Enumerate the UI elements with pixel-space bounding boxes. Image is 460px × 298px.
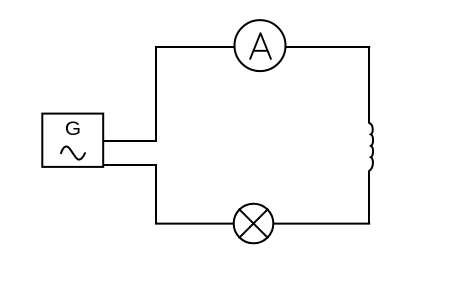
inductor L1 coil xyxy=(369,123,373,171)
wire: bottom horizontal (through lamp) xyxy=(155,223,370,225)
lamp X cross xyxy=(239,209,269,239)
wire: left vertical lower segment xyxy=(155,164,157,225)
svg-text:G: G xyxy=(65,119,81,140)
generator label G xyxy=(65,119,81,140)
ammeter A circle xyxy=(235,20,286,71)
lamp circle xyxy=(234,204,274,244)
generator sine wave symbol xyxy=(61,146,85,159)
wire: top horizontal (through ammeter) xyxy=(155,46,370,48)
generator G box xyxy=(42,114,103,167)
wire: right vertical lower segment xyxy=(368,171,370,225)
ammeter letter A xyxy=(250,33,271,59)
wire: left vertical upper segment xyxy=(155,46,157,142)
wire: generator bottom terminal to left junction xyxy=(103,164,157,166)
wire: right vertical upper segment xyxy=(368,46,370,124)
wire: generator top terminal to left junction xyxy=(103,140,157,142)
